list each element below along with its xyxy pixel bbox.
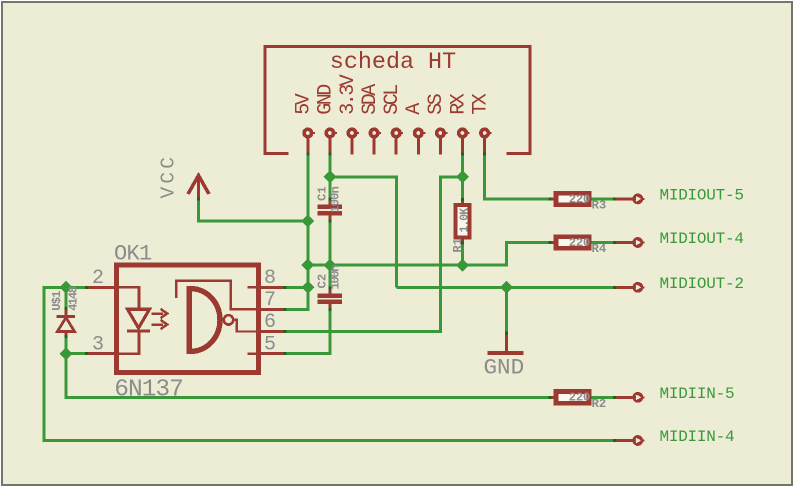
OK1 pin 2 — [86, 286, 116, 289]
svg-text:5V: 5V — [293, 93, 316, 115]
wire R3 to pad — [591, 197, 615, 200]
capacitor C2 100n — [316, 265, 343, 311]
wire RX pin down — [461, 155, 464, 177]
wire RX to OK1 pin6 — [285, 177, 463, 332]
connector box "scheda HT" — [264, 47, 532, 154]
resistor R2 220 — [556, 391, 606, 411]
OK1 pin 8 — [259, 286, 285, 289]
wire TX pin to R3 — [485, 155, 551, 199]
wire R2 to pad — [591, 396, 615, 399]
diode U$1 4148 — [50, 286, 81, 338]
pad MIDIOUT-4 — [634, 230, 743, 248]
wire joint — [328, 152, 331, 155]
wire diode bottom lead — [65, 336, 68, 354]
svg-text:R2: R2 — [592, 397, 607, 411]
wire R4 to pad — [591, 241, 615, 244]
capacitor C1 100n — [316, 186, 343, 222]
svg-text:220: 220 — [569, 236, 590, 250]
wire to GND symbol — [505, 287, 508, 333]
wire OK1 pin2 to diode node — [66, 286, 86, 289]
wire joint — [483, 152, 486, 155]
svg-text:R1: R1 — [451, 238, 465, 252]
OK1 pin 7 — [259, 308, 285, 311]
wire R1 top lead — [461, 177, 464, 200]
wire MIDIIN-5 net — [66, 354, 551, 398]
node junction at 307.8,287.3 — [301, 281, 314, 294]
node junction at 66,287.3 — [60, 281, 73, 294]
pin RX of scheda HT — [447, 93, 470, 154]
resistor R1 1.0K — [451, 198, 471, 253]
node junction at 506.5,287.3 — [500, 281, 513, 294]
wire red lead to pad — [615, 439, 634, 442]
wire joint — [284, 286, 287, 289]
wire joint — [284, 308, 287, 311]
wire red lead into resistor — [550, 197, 554, 200]
svg-text:MIDIIN-5: MIDIIN-5 — [660, 385, 735, 403]
node junction at 307.8,221 — [301, 215, 314, 228]
pin 3.3V of scheda HT — [337, 74, 360, 154]
wire red lead to pad — [615, 286, 634, 289]
wire joint — [284, 330, 287, 333]
svg-text:GND: GND — [315, 85, 338, 115]
wire diode top lead — [65, 287, 68, 308]
svg-text:3: 3 — [92, 333, 104, 356]
svg-text:C1: C1 — [316, 186, 330, 201]
svg-text:4148: 4148 — [67, 286, 81, 311]
svg-text:MIDIOUT-2: MIDIOUT-2 — [660, 275, 744, 293]
wire joint — [461, 152, 464, 155]
svg-text:GND: GND — [484, 355, 525, 381]
wire GND pin down — [328, 154, 331, 177]
OK1 internal output wire — [233, 320, 256, 332]
svg-text:100n: 100n — [329, 187, 343, 213]
node junction at 462.5,265.2 — [456, 259, 469, 272]
svg-text:SS: SS — [425, 93, 448, 115]
pad MIDIOUT-5 — [634, 186, 743, 204]
wire MIDIIN-4 net — [44, 287, 615, 440]
wire 5V pin down to OK1 pin7 — [285, 155, 308, 310]
svg-text:C2: C2 — [316, 274, 330, 289]
svg-text:R4: R4 — [592, 242, 607, 256]
OK1 pin 5 — [259, 352, 285, 355]
wire C2 top lead — [328, 265, 331, 287]
svg-text:scheda HT: scheda HT — [330, 50, 456, 76]
svg-text:8: 8 — [264, 267, 276, 290]
wire joint — [85, 286, 88, 289]
svg-text:220: 220 — [569, 391, 590, 405]
pin SS of scheda HT — [425, 93, 448, 154]
svg-text:U$1: U$1 — [50, 291, 64, 311]
pad MIDIIN-4 — [634, 428, 734, 446]
wire R1 bottom lead — [461, 243, 464, 265]
VCC power symbol — [157, 154, 209, 201]
svg-text:6: 6 — [264, 311, 276, 334]
wire GND pin to MIDIOUT-2 row — [330, 177, 396, 287]
ground symbol GND — [484, 331, 525, 380]
svg-text:MIDIIN-4: MIDIIN-4 — [660, 428, 735, 446]
svg-text:MIDIOUT-4: MIDIOUT-4 — [660, 230, 744, 248]
pin A of scheda HT — [403, 103, 426, 155]
wire OK1 pin8 to 5V line — [285, 286, 308, 289]
optocoupler OK1 6N137 body — [114, 242, 259, 404]
pin TX of scheda HT — [469, 93, 492, 154]
wire 5V rail to R4 — [308, 243, 551, 266]
OK1 internal vcc stub — [248, 286, 259, 288]
svg-text:5: 5 — [264, 333, 276, 356]
node junction at 307.8,265.2 — [301, 259, 314, 272]
svg-text:7: 7 — [264, 289, 276, 312]
wire diode node to OK1 pin3 — [66, 352, 86, 355]
node junction at 329.9,265.2 — [323, 259, 336, 272]
pad MIDIOUT-2 — [634, 275, 743, 293]
OK1 pin 6 — [259, 330, 285, 333]
wire VCC arrow to 5V line — [199, 198, 308, 221]
svg-text:2: 2 — [92, 267, 104, 290]
svg-text:220: 220 — [569, 192, 590, 206]
wire OK1 pin5 to C2 bottom — [285, 310, 330, 354]
pin SDA of scheda HT — [359, 84, 382, 155]
OK1 internal NAND gate — [176, 281, 258, 354]
wire C1 top lead — [328, 177, 331, 200]
svg-text:RX: RX — [447, 93, 470, 115]
OK1 internal LED — [119, 287, 167, 353]
OK1 internal enable wire — [176, 281, 256, 310]
svg-text:SDA: SDA — [359, 84, 382, 115]
svg-text:3.3V: 3.3V — [337, 74, 360, 115]
pin GND of scheda HT — [315, 85, 338, 155]
svg-text:SCL: SCL — [381, 85, 404, 115]
svg-text:6N137: 6N137 — [114, 377, 183, 404]
node junction at 329.9,176.8 — [323, 170, 336, 183]
svg-text:OK1: OK1 — [114, 242, 152, 267]
node junction at 462.5,176.8 — [456, 170, 469, 183]
pin 5V of scheda HT — [293, 93, 316, 154]
wire red lead into resistor — [550, 241, 554, 244]
wire red lead to pad — [615, 396, 634, 399]
wire MIDIOUT-2 net — [396, 286, 614, 289]
svg-text:MIDIOUT-5: MIDIOUT-5 — [660, 186, 744, 204]
svg-text:1.0K: 1.0K — [458, 208, 471, 233]
wire red lead to pad — [615, 241, 634, 244]
resistor R4 220 — [556, 236, 607, 256]
svg-text:R3: R3 — [592, 199, 607, 213]
pad MIDIIN-5 — [634, 385, 734, 403]
wire joint — [306, 152, 309, 155]
resistor R3 220 — [556, 192, 606, 212]
node junction at 66,353.6 — [60, 347, 73, 360]
wire red lead into resistor — [550, 396, 554, 399]
wire joint — [284, 352, 287, 355]
wire joint — [85, 352, 88, 355]
OK1 pin 3 — [86, 352, 116, 355]
wire red lead to pad — [615, 197, 634, 200]
svg-text:TX: TX — [469, 93, 492, 115]
OK1 internal gnd stub — [248, 352, 259, 354]
svg-text:100n: 100n — [329, 265, 343, 290]
pin SCL of scheda HT — [381, 85, 404, 155]
svg-text:VCC: VCC — [157, 154, 179, 199]
wire C1 bottom lead — [328, 221, 331, 266]
